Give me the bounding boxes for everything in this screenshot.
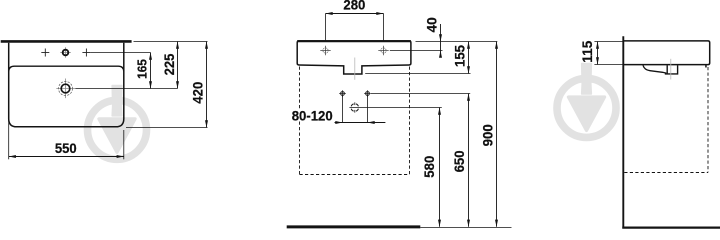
drain circles	[56, 79, 75, 99]
tap hole left (dashed)	[320, 46, 330, 55]
svg-text:80-120: 80-120	[292, 108, 333, 124]
leader mounting holes to 650	[371, 93, 470, 95]
floor line thin extension	[420, 227, 511, 229]
svg-text:550: 550	[55, 140, 77, 156]
mounting hole right	[364, 90, 371, 97]
dimension 165	[134, 53, 152, 89]
basin body outline	[297, 41, 411, 74]
dimension 225	[162, 42, 179, 89]
drain center line side	[670, 59, 672, 80]
dimension 650	[452, 94, 470, 227]
tap hole right (dashed)	[378, 46, 388, 55]
floor line middle (thick)	[287, 225, 421, 228]
drain boss side	[665, 65, 678, 74]
bowl underside profile	[643, 65, 666, 73]
extension top edge	[134, 41, 208, 43]
extension tap line right	[390, 50, 443, 52]
dashed recess rectangle front	[300, 67, 410, 175]
svg-text:115: 115	[580, 40, 595, 62]
extension lines 115	[594, 41, 623, 43]
leader drain to 580	[361, 107, 442, 109]
dashed recess rectangle side	[624, 67, 708, 173]
svg-text:225: 225	[162, 53, 177, 75]
dimension 115	[580, 40, 599, 64]
extension bottom edge	[126, 127, 208, 129]
drain center line	[354, 58, 356, 80]
leader drain line	[76, 88, 178, 90]
drain position symbol	[349, 102, 360, 112]
svg-text:420: 420	[190, 82, 205, 104]
label 80-120 halo	[291, 109, 334, 122]
wall back edge (thick)	[1, 40, 132, 43]
mounting hole left	[339, 90, 346, 97]
svg-text:165: 165	[134, 59, 149, 79]
watermark logo left view	[88, 86, 147, 160]
dimension 155	[365, 42, 470, 74]
leader tap line	[91, 52, 151, 54]
svg-text:280: 280	[343, 0, 365, 13]
dimension 550	[9, 112, 124, 159]
svg-text:580: 580	[422, 156, 437, 178]
extension top edge right	[416, 41, 498, 43]
drip mark under front edge	[705, 65, 707, 68]
wall line	[622, 36, 624, 228]
dimension 40	[425, 17, 442, 57]
basin slab side profile	[623, 41, 709, 65]
dimension 280	[326, 0, 384, 15]
basin outer outline	[9, 43, 124, 127]
dimension 900	[481, 42, 498, 227]
floor line side (thick)	[622, 227, 720, 229]
bowl back edge	[9, 66, 124, 71]
svg-text:155: 155	[452, 45, 467, 67]
extension lines to 280	[325, 14, 327, 42]
tap hole cross left	[41, 49, 49, 57]
dimension 80-120 line	[335, 121, 386, 124]
dimension 420	[190, 42, 208, 128]
tap hole circle center	[60, 47, 71, 58]
mounting hole drop lines	[342, 95, 344, 123]
watermark logo side view	[557, 64, 616, 138]
svg-text:650: 650	[452, 150, 467, 172]
svg-text:900: 900	[481, 124, 496, 146]
svg-text:40: 40	[425, 17, 440, 32]
basin top edge thick	[297, 40, 411, 42]
tap hole cross right	[82, 49, 90, 57]
dimension 580	[422, 108, 441, 227]
